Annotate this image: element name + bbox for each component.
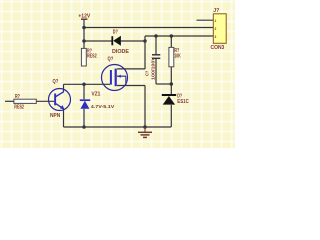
diode D1 (D? DIODE) flyback [111, 30, 129, 55]
resistor R3 (R? 10K) [169, 47, 181, 66]
wire 10K top lead [170, 36, 172, 47]
svg-text:NPN: NPN [50, 113, 60, 119]
wire NPN emitter vertical [63, 109, 65, 127]
svg-text:CON3: CON3 [211, 45, 225, 51]
wire drain net to connector pin 3 [145, 35, 214, 37]
resistor R2 (R? RES2) base input [14, 94, 36, 110]
wire gate net horizontal [64, 83, 111, 85]
wire connector pin 1 stub [197, 19, 214, 21]
connector J1 (J? CON3) [211, 8, 227, 51]
wire +12V rail vertical [83, 20, 85, 49]
resistor R1 (R? RES2) pull-up [81, 48, 96, 66]
svg-text:1: 1 [215, 19, 217, 23]
wire NPN collector vertical [63, 84, 65, 92]
svg-text:Q?: Q? [108, 56, 114, 62]
wire zener branch lower [83, 109, 85, 127]
node junction 10K/pin3 wire [170, 34, 174, 38]
wire capacitor to ES1C node [156, 83, 171, 85]
svg-text:VZ1: VZ1 [91, 92, 100, 98]
wire capacitor top lead [155, 36, 157, 54]
svg-text:+12V: +12V [78, 14, 90, 20]
svg-text:D?: D? [113, 30, 118, 36]
svg-text:10K: 10K [174, 53, 180, 59]
wire 10K to diode D ES1C [170, 67, 172, 95]
diode D2 (D? ES1C) [162, 93, 189, 105]
svg-text:DIODE: DIODE [112, 49, 129, 55]
svg-text:2: 2 [215, 27, 217, 31]
zener diode VZ1 [80, 92, 115, 110]
wire MOSFET drain stub [117, 68, 145, 70]
node junction cap/10K/ES1C [170, 82, 174, 86]
node junction diode anode/drain [143, 39, 147, 43]
power +12V symbol [78, 14, 90, 20]
wire D ES1C anode to ground rail [170, 105, 172, 127]
node junction +12V/pin2 [82, 26, 86, 30]
svg-text:ES1C: ES1C [177, 99, 189, 105]
wire ground rail [64, 126, 172, 128]
svg-text:Q?: Q? [53, 79, 59, 85]
wire base input left [5, 100, 14, 102]
wire MOSFET source vertical to ground rail [144, 86, 146, 128]
capacitor C1 (C? 100/100V) [145, 55, 161, 80]
wire +12V to connector pin 2 [84, 27, 214, 29]
wire MOSFET source stub [117, 85, 145, 87]
node junction source/ground rail [143, 125, 147, 129]
node junction gate/zener [82, 83, 86, 87]
svg-text:R?: R? [15, 94, 20, 100]
wire rail to diode cathode [84, 40, 112, 42]
wire diode anode to drain net [121, 40, 145, 42]
transistor Q2 (Q? NPN) [49, 79, 71, 119]
node junction cap/pin3 wire [154, 34, 158, 38]
wire zener branch upper [83, 84, 85, 99]
svg-text:100/100V: 100/100V [150, 56, 156, 80]
mosfet Q1 (Q?) N-channel [102, 56, 128, 90]
svg-text:RES2: RES2 [14, 104, 24, 110]
svg-text:3: 3 [215, 35, 217, 39]
svg-text:C?: C? [145, 71, 151, 76]
svg-text:RES2: RES2 [87, 54, 97, 60]
ground symbol [138, 127, 152, 137]
wire base to transistor [36, 100, 54, 102]
svg-text:J?: J? [213, 8, 219, 14]
svg-text:4.7V-5.1V: 4.7V-5.1V [91, 104, 115, 110]
wire capacitor bottom lead [155, 59, 157, 84]
node junction zener/ground rail [82, 125, 86, 129]
node junction rail/diode [82, 39, 86, 43]
wire drain net vertical [144, 36, 146, 69]
